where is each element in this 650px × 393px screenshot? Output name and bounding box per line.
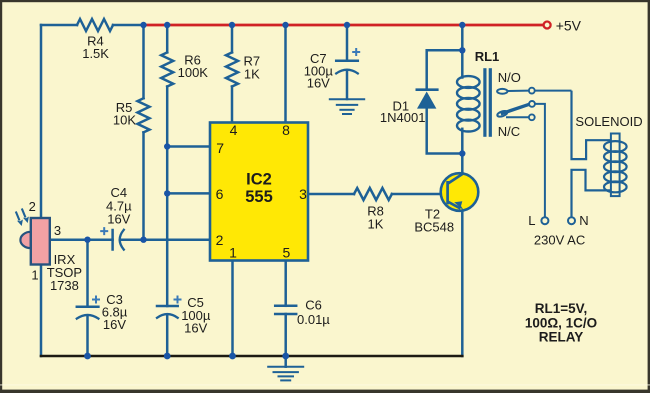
IR receiver IRX TSOP1738 sensor bump	[20, 232, 30, 248]
resistor R5	[138, 98, 150, 132]
solenoid core	[611, 134, 620, 197]
svg-text:RL1: RL1	[475, 49, 500, 64]
junction R7 on +5V rail	[229, 22, 235, 28]
wire C6 to rail	[284, 314, 287, 356]
svg-text:RELAY: RELAY	[539, 330, 584, 345]
svg-text:+5V: +5V	[556, 18, 582, 34]
diode D1	[416, 90, 439, 109]
ground under bottom rail	[284, 356, 287, 367]
relay RL1 coil	[457, 76, 480, 131]
svg-text:SOLENOID: SOLENOID	[575, 114, 642, 129]
svg-text:8: 8	[282, 122, 290, 138]
IC2 555 label	[245, 170, 273, 206]
capacitor C3	[77, 305, 99, 308]
svg-text:1.5K: 1.5K	[82, 46, 109, 61]
svg-text:0.01µ: 0.01µ	[297, 312, 330, 327]
C5 plus	[174, 296, 182, 304]
junction D1/relay/collector	[459, 150, 465, 156]
junction pin6/R6	[164, 190, 170, 196]
+5V terminal circle	[544, 22, 551, 29]
resistor R4	[77, 19, 113, 31]
capacitor C6	[275, 305, 296, 308]
svg-text:N/O: N/O	[498, 70, 521, 85]
wire pin7 line	[167, 145, 210, 148]
svg-text:1K: 1K	[244, 67, 260, 82]
capacitor C4	[111, 230, 114, 250]
IC pin number labels	[216, 122, 308, 261]
svg-text:IC2: IC2	[246, 170, 272, 188]
svg-text:16V: 16V	[307, 76, 330, 91]
wire R4 left lead	[41, 24, 77, 27]
C4 plus	[100, 227, 108, 235]
relay contact N/C	[506, 114, 535, 120]
wire R5 bottom lead	[142, 132, 145, 239]
svg-text:C6: C6	[305, 298, 322, 313]
wire C5 bottom lead	[166, 315, 169, 356]
wire D1 bottom branch	[427, 109, 463, 154]
junction C5 on ground rail	[164, 353, 171, 360]
svg-text:16V: 16V	[107, 211, 130, 226]
wire emitter down to ground rail	[461, 210, 464, 356]
junction pin1 on ground rail	[229, 353, 236, 360]
transistor Q2: T2 BC548	[441, 173, 479, 211]
wire TSOP pin3 line to C4	[50, 238, 113, 241]
junction C6/ground symbol on ground rail	[282, 353, 289, 360]
junction C7 on +5V rail	[344, 22, 350, 28]
svg-text:555: 555	[245, 188, 273, 206]
ground rail (black)	[41, 355, 462, 358]
svg-text:230V AC: 230V AC	[534, 232, 585, 247]
wire relay drop from rail	[461, 25, 464, 50]
wire D1 top branch	[427, 50, 463, 88]
wire R7 top lead	[231, 25, 234, 52]
capacitor C5	[157, 305, 178, 308]
wire pin5 to C6	[284, 262, 287, 306]
svg-text:4: 4	[230, 122, 238, 138]
svg-text:100Ω, 1C/O: 100Ω, 1C/O	[525, 315, 597, 330]
svg-text:6: 6	[216, 186, 224, 202]
wire pin1 to rail	[231, 262, 234, 357]
relay RL1 core bars	[483, 68, 486, 137]
wire R6 top lead	[166, 25, 169, 52]
svg-text:1N4001: 1N4001	[380, 110, 426, 125]
terminal L	[541, 217, 548, 224]
relay common pole and arm	[497, 101, 545, 217]
svg-text:N: N	[579, 213, 588, 228]
junction R4/R5 on +5V rail	[140, 22, 146, 28]
svg-text:100K: 100K	[178, 65, 209, 80]
svg-text:RL1=5V,: RL1=5V,	[535, 301, 587, 316]
svg-text:L: L	[528, 213, 535, 228]
junction D1/relay top	[459, 47, 465, 53]
svg-text:N/C: N/C	[498, 124, 520, 139]
ground under C7	[330, 99, 364, 114]
junction relay branch on +5V rail	[459, 22, 465, 28]
IR arrows	[16, 209, 29, 227]
junction C3 on ground rail	[84, 353, 91, 360]
TSOP1738 body	[31, 218, 50, 265]
wire C3 top lead	[86, 240, 89, 307]
svg-text:3: 3	[299, 186, 307, 202]
wire C3 bottom lead	[86, 316, 89, 356]
wire TSOP pin1 to rail	[40, 265, 43, 357]
svg-text:5: 5	[283, 245, 291, 261]
wire R6 bottom to C5	[166, 87, 169, 307]
junction pin7/R6	[164, 143, 170, 149]
wire solenoid to N terminal	[572, 170, 612, 217]
wire C7 top lead	[346, 25, 349, 61]
junction R5/C4 node	[140, 237, 146, 243]
svg-text:7: 7	[216, 140, 224, 156]
relay contact N/O	[497, 88, 571, 94]
note RL1=5V 100ohm 1C/O RELAY	[525, 301, 597, 345]
svg-text:2: 2	[29, 199, 36, 214]
C7 plus	[352, 48, 360, 56]
resistor R6	[161, 52, 173, 86]
power rail +5V (red)	[144, 24, 544, 27]
solenoid coil	[604, 141, 627, 192]
terminal N	[568, 217, 575, 224]
wire left vertical (+5V to TSOP pin2)	[40, 25, 43, 218]
junction C3 tap	[84, 237, 90, 243]
wire R5 top lead	[142, 25, 145, 98]
wire pin3 to R8	[309, 193, 354, 196]
wire C4 to pin2	[122, 238, 210, 241]
wire collector	[461, 154, 464, 175]
svg-text:2: 2	[216, 232, 224, 248]
wire R7 to pin4	[231, 87, 234, 123]
wire N/O to solenoid	[572, 91, 612, 217]
svg-text:16V: 16V	[184, 321, 207, 336]
svg-text:1K: 1K	[368, 217, 384, 232]
border frame	[0, 0, 650, 2]
wire pin6 line	[167, 192, 210, 195]
C3 plus	[92, 296, 100, 304]
capacitor C7	[336, 59, 358, 62]
IC IC2 555 body	[210, 123, 308, 261]
resistor R8	[354, 188, 392, 200]
svg-text:BC548: BC548	[414, 219, 454, 234]
svg-text:1738: 1738	[50, 278, 79, 293]
capacitor plus signs (blue)	[92, 48, 360, 304]
wire pin8	[284, 25, 287, 122]
resistor R7	[226, 52, 238, 86]
svg-text:10K: 10K	[113, 112, 136, 127]
svg-text:1: 1	[229, 245, 237, 261]
junction R6 on +5V rail	[164, 22, 170, 28]
wire R4 right lead	[113, 24, 144, 27]
relay coil leads	[461, 50, 464, 77]
svg-text:3: 3	[54, 223, 61, 238]
junction pin8 on +5V rail	[282, 22, 288, 28]
wire R8 to base	[392, 193, 446, 196]
svg-text:1: 1	[31, 268, 38, 283]
svg-text:16V: 16V	[103, 317, 126, 332]
